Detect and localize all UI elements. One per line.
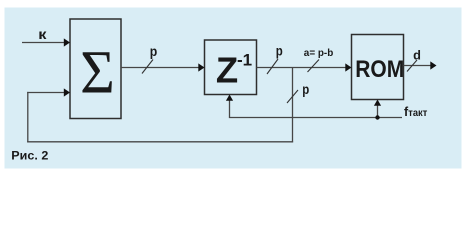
arrowhead k input bbox=[64, 38, 70, 46]
svg-text:такт: такт bbox=[408, 107, 427, 119]
bus slash D bbox=[308, 60, 320, 73]
svg-text:d: d bbox=[413, 49, 421, 63]
svg-text:p: p bbox=[276, 44, 283, 59]
summator U1 (sigma) box bbox=[70, 19, 121, 119]
wire: left vertical feedback bbox=[27, 92, 29, 142]
arrowhead into Z bbox=[198, 63, 204, 71]
wire: Z output to ROM bbox=[257, 67, 347, 69]
wire: sigma output to Z bbox=[121, 67, 199, 69]
arrowhead d output bbox=[430, 61, 436, 69]
wire: clock horizontal run bbox=[229, 117, 402, 119]
wire: ROM output d bbox=[404, 65, 432, 67]
arrowhead lower input bbox=[64, 88, 70, 96]
bus slash B bbox=[267, 59, 278, 74]
delay element Z^-1 box bbox=[205, 40, 257, 95]
svg-text:p: p bbox=[150, 44, 158, 59]
wire: right vertical p feedback bbox=[292, 68, 294, 143]
svg-text:ROM: ROM bbox=[355, 56, 404, 83]
svg-text:Σ: Σ bbox=[80, 39, 115, 107]
bus slash C on vertical feedback bbox=[287, 90, 298, 103]
svg-text:a= p-b: a= p-b bbox=[304, 47, 334, 59]
arrowhead into ROM bbox=[345, 63, 351, 71]
ROM U3 box bbox=[352, 35, 404, 100]
bus slash E bbox=[407, 60, 417, 72]
wire: clock vertical into Z bottom bbox=[229, 99, 231, 118]
svg-text:-1: -1 bbox=[237, 51, 252, 70]
panel background bbox=[5, 8, 462, 169]
arrowhead clock into ROM bbox=[374, 100, 381, 106]
wire: k input into sigma bbox=[22, 42, 65, 44]
svg-text:к: к bbox=[38, 26, 47, 42]
wire: feedback lower input into sigma bbox=[27, 92, 64, 94]
svg-text:Z: Z bbox=[216, 50, 238, 91]
bus slash A bbox=[142, 60, 153, 74]
svg-text:Рис. 2: Рис. 2 bbox=[11, 150, 48, 162]
wire: clock branch into ROM bottom bbox=[377, 104, 379, 118]
svg-text:p: p bbox=[302, 82, 309, 97]
arrowhead clock into Z bbox=[226, 95, 233, 101]
junction dot clock/ROM bbox=[375, 115, 379, 119]
wire: bottom feedback run bbox=[27, 141, 293, 143]
